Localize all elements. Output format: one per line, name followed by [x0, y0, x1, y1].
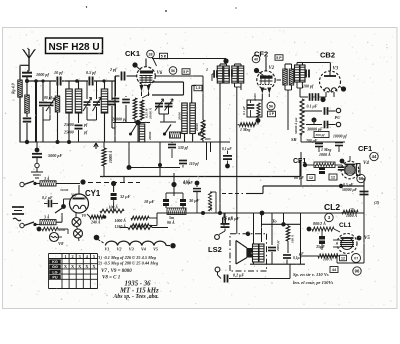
svg-text:V4: V4 — [363, 161, 369, 166]
svg-text:20000 Ǻ: 20000 Ǻ — [148, 108, 153, 120]
svg-text:100 Ǻ: 100 Ǻ — [323, 257, 333, 262]
svg-text:96: 96 — [355, 269, 360, 274]
svg-text:0,1μF: 0,1μF — [293, 256, 302, 260]
svg-text:31000: 31000 — [59, 188, 69, 192]
svg-text:CL1: CL1 — [339, 222, 352, 229]
svg-text:56: 56 — [269, 104, 273, 108]
svg-text:90 Ǻ: 90 Ǻ — [167, 220, 175, 225]
svg-text:V5: V5 — [364, 236, 370, 241]
svg-text:PU: PU — [52, 276, 58, 280]
svg-text:CY1: CY1 — [85, 189, 101, 198]
svg-text:1000 Ǻ: 1000 Ǻ — [115, 218, 127, 223]
svg-text:V5: V5 — [153, 247, 158, 252]
svg-text:800/2 Ǻ: 800/2 Ǻ — [313, 221, 326, 226]
svg-text:0,1 μF: 0,1 μF — [42, 196, 53, 200]
svg-text:1000 Ǻ: 1000 Ǻ — [346, 213, 358, 218]
svg-text:V2: V2 — [117, 247, 122, 252]
svg-text:20000: 20000 — [148, 131, 152, 141]
svg-text:30000 pF: 30000 pF — [306, 127, 323, 132]
svg-text:40: 40 — [254, 57, 258, 61]
svg-text:5000 pF: 5000 pF — [48, 153, 63, 158]
svg-text:3 P: 3 P — [269, 112, 275, 116]
svg-text:LG: LG — [52, 270, 57, 274]
svg-text:CB2: CB2 — [320, 51, 335, 60]
svg-text:100 pf: 100 pf — [303, 84, 314, 89]
svg-text:25000: 25000 — [63, 131, 74, 135]
svg-text:(3): (3) — [374, 200, 380, 205]
svg-text:3 Ǻ: 3 Ǻ — [43, 176, 50, 181]
svg-text:500 pf: 500 pf — [316, 133, 326, 137]
svg-text:Rg 4.9: Rg 4.9 — [11, 83, 16, 94]
svg-text:80 μF: 80 μF — [294, 175, 304, 180]
svg-text:12: 12 — [331, 175, 335, 179]
svg-text:35μF: 35μF — [315, 244, 325, 249]
svg-text:V1: V1 — [105, 247, 110, 252]
svg-text:50000 μF: 50000 μF — [342, 188, 358, 192]
svg-text:0,1 μF: 0,1 μF — [222, 147, 232, 151]
svg-text:CF1: CF1 — [358, 144, 372, 153]
svg-text:Sp. en str v. 110 Vs: Sp. en str v. 110 Vs — [293, 272, 329, 277]
svg-text:NSF H28 U: NSF H28 U — [48, 42, 99, 53]
svg-text:25000: 25000 — [63, 123, 74, 127]
svg-text:SR: SR — [291, 137, 297, 142]
svg-text:5 P: 5 P — [183, 70, 189, 74]
svg-text:2: 2 — [72, 254, 74, 259]
svg-text:10000 Ǻ: 10000 Ǻ — [108, 150, 113, 163]
svg-text:1 Meg: 1 Meg — [240, 127, 250, 132]
svg-text:12: 12 — [341, 256, 345, 260]
svg-text:40000: 40000 — [253, 93, 257, 102]
svg-text:V2: V2 — [269, 66, 275, 71]
svg-text:50000 Ǻ pot: 50000 Ǻ pot — [293, 118, 298, 134]
svg-text:KG: KG — [52, 260, 58, 264]
svg-text:28: 28 — [149, 52, 153, 56]
svg-text:len. el cour, pr 150Vs: len. el cour, pr 150Vs — [293, 280, 334, 285]
svg-text:18 μF: 18 μF — [144, 199, 155, 204]
svg-text:0,2 μF: 0,2 μF — [233, 273, 244, 278]
svg-text:5: 5 — [93, 254, 95, 259]
svg-text:V7 , V9 = 8080: V7 , V9 = 8080 — [101, 269, 132, 274]
svg-text:4,5Ǻ: 4,5Ǻ — [182, 179, 190, 184]
svg-text:CK1: CK1 — [125, 49, 140, 58]
svg-text:1: 1 — [64, 254, 66, 259]
svg-text:100 Ǻ: 100 Ǻ — [109, 205, 119, 210]
svg-text:56: 56 — [171, 69, 175, 73]
svg-text:30 μF: 30 μF — [188, 198, 200, 203]
svg-text:10000 pf: 10000 pf — [333, 135, 347, 139]
svg-text:0,5 μF: 0,5 μF — [222, 216, 233, 221]
svg-text:V8 = C 1: V8 = C 1 — [102, 276, 120, 281]
svg-text:2 pf: 2 pf — [109, 67, 117, 72]
svg-text:3: 3 — [79, 254, 81, 259]
svg-text:Abs sp. - Tees ,aba.: Abs sp. - Tees ,aba. — [113, 294, 159, 300]
svg-text:20000: 20000 — [195, 123, 199, 132]
svg-text:2000 pf: 2000 pf — [276, 240, 280, 252]
svg-text:LS2: LS2 — [208, 245, 222, 254]
svg-text:1,5: 1,5 — [196, 86, 201, 90]
svg-text:44: 44 — [372, 154, 377, 159]
svg-text:32 μF: 32 μF — [119, 194, 131, 199]
svg-text:GG: GG — [52, 265, 58, 269]
svg-text:1000 Ǻ: 1000 Ǻ — [319, 152, 331, 157]
svg-text:0.1 μF: 0.1 μF — [242, 105, 246, 115]
svg-text:V7: V7 — [354, 256, 358, 260]
svg-text:1935 - 36: 1935 - 36 — [125, 281, 152, 288]
svg-text:V3: V3 — [333, 67, 339, 72]
svg-text:100 Ǻ: 100 Ǻ — [290, 234, 295, 243]
svg-text:pf: pf — [83, 123, 88, 127]
svg-text:V3: V3 — [129, 247, 134, 252]
svg-text:(1) -0.1 Meg of 226 U 25 4.5: (1) -0.1 Meg of 226 U 25 4.5 Meg — [97, 255, 157, 260]
svg-text:20000: 20000 — [178, 112, 182, 121]
svg-text:80 pf: 80 pf — [44, 96, 53, 100]
svg-text:1: 1 — [206, 67, 208, 72]
svg-text:(2) -0.5 Meg of 288 U 25 0.44: (2) -0.5 Meg of 288 U 25 0.44 Meg — [97, 261, 159, 266]
svg-text:56: 56 — [359, 176, 364, 181]
svg-text:3 Ǻ: 3 Ǻ — [43, 215, 50, 220]
svg-text:pf: pf — [83, 131, 88, 135]
svg-text:To: To — [272, 219, 277, 224]
svg-text:12: 12 — [309, 176, 313, 180]
svg-text:5 P: 5 P — [276, 56, 282, 60]
svg-text:0.1 μF: 0.1 μF — [307, 104, 318, 109]
svg-text:V8: V8 — [58, 241, 64, 246]
svg-text:20000 pf: 20000 pf — [111, 117, 127, 122]
svg-text:V9: V9 — [82, 214, 86, 218]
svg-text:240 Ǻ: 240 Ǻ — [90, 220, 101, 225]
svg-text:530 pf: 530 pf — [178, 146, 189, 150]
svg-text:10 pf: 10 pf — [54, 70, 63, 75]
svg-text:110 pf: 110 pf — [189, 162, 199, 166]
svg-text:V4: V4 — [141, 247, 146, 252]
